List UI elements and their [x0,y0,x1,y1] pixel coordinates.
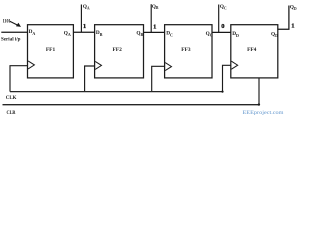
svg-text:DC: DC [166,31,173,38]
wire CLR bus [3,104,260,106]
wire CLK stub FF2 [85,66,95,92]
wire CLK stub FF1 [10,66,28,92]
wire CLK bus [10,91,223,93]
svg-text:QD: QD [271,31,278,38]
svg-text:Serial i/p: Serial i/p [1,36,21,42]
wire QB to DC [144,31,165,33]
svg-text:QB: QB [136,31,143,38]
wire CLR stub FF4 [258,78,260,105]
svg-text:1101: 1101 [3,18,11,24]
wire QA to DB [73,31,94,33]
clock triangle FF1 [28,61,34,69]
svg-text:FF2: FF2 [113,47,123,53]
wire serial input [1,31,27,33]
junction CLR right corner [258,103,260,105]
svg-text:1: 1 [153,23,156,30]
junction CLK right corner [221,91,223,93]
flip-flop FF2 [95,25,144,78]
node QC tap [218,5,220,33]
svg-text:CLK: CLK [6,95,17,101]
svg-text:DB: DB [96,30,103,37]
wire QC to DD [212,31,231,33]
clock triangle FF4 [231,61,237,69]
svg-text:1: 1 [83,23,86,30]
svg-text:EEEproject.com: EEEproject.com [243,110,285,116]
svg-text:CLR: CLR [7,110,16,116]
svg-text:DA: DA [29,29,36,36]
svg-text:QA: QA [64,30,71,37]
flip-flop FF1 [28,25,74,78]
clock triangle FF3 [165,63,171,71]
svg-text:QC: QC [206,31,213,38]
svg-text:FF4: FF4 [247,47,257,53]
node QA tap [80,5,82,33]
svg-text:FF1: FF1 [46,47,56,53]
node QB tap [150,4,152,32]
arrow to serial input [10,21,21,27]
svg-text:1: 1 [291,23,294,30]
flip-flop FF4 [231,25,278,78]
clock triangle FF2 [95,61,101,69]
wire CLK stub FF3 [152,66,165,91]
wire QD output [278,6,289,30]
svg-text:DD: DD [232,31,239,38]
wire CLK stub FF4 [223,65,231,91]
svg-text:FF3: FF3 [181,47,191,53]
flip-flop FF3 [165,25,212,78]
